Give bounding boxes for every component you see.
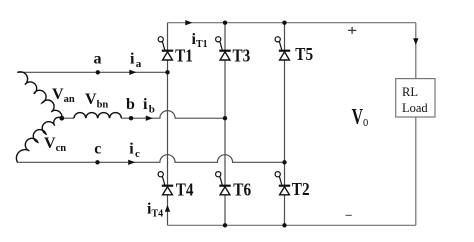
thyristor T4	[158, 172, 173, 195]
load box RL	[396, 79, 435, 117]
junction phase a / leg 1	[165, 70, 169, 74]
svg-text:T3: T3	[233, 45, 251, 65]
svg-text:Load: Load	[402, 101, 428, 115]
node b	[129, 116, 133, 120]
arrow ic	[128, 160, 135, 165]
svg-text:T6: T6	[233, 180, 251, 200]
thyristor T5	[275, 37, 290, 60]
wire phase a	[17, 71, 168, 73]
junction phase c / leg 3	[282, 160, 286, 164]
junction top rail / leg 3	[282, 21, 286, 25]
svg-text:T4: T4	[176, 180, 194, 200]
label - (negative terminal)	[346, 214, 352, 216]
wire top rail	[168, 22, 416, 24]
wire phase c (with hops over legs 1 and 2)	[17, 155, 285, 163]
arrow load current	[413, 38, 418, 45]
arrow iT1 on top rail	[185, 20, 192, 25]
svg-text:T1: T1	[175, 46, 193, 66]
arrow ia	[129, 70, 136, 75]
thyristor T3	[216, 37, 231, 60]
thyristor T2	[275, 172, 290, 195]
svg-text:b: b	[126, 96, 135, 113]
thyristor T6	[216, 172, 231, 195]
junction bottom rail / leg 2	[223, 223, 227, 227]
wire bridge leg 2 (T3/T6)	[224, 23, 226, 226]
arrow ib	[146, 116, 153, 121]
inductor winding Vcn	[16, 117, 61, 162]
wire right side (load branch)	[415, 23, 417, 226]
label + (positive terminal)	[348, 27, 356, 34]
thyristor T1	[158, 37, 173, 60]
inductor winding Vbn	[74, 113, 121, 119]
wire bridge leg 3 (T5/T2)	[284, 23, 286, 226]
node n (star point)	[59, 116, 64, 121]
wire bottom rail	[168, 224, 416, 226]
inductor winding Van	[18, 72, 62, 118]
svg-text:T2: T2	[292, 179, 310, 199]
junction phase b / leg 2	[223, 116, 227, 120]
svg-text:c: c	[94, 141, 101, 158]
junction bottom rail / leg 3	[282, 223, 286, 227]
junction top rail / leg 2	[223, 21, 227, 25]
wire phase b (with hop over leg 1)	[62, 111, 225, 119]
svg-text:a: a	[94, 51, 102, 68]
arrow iT4 on leg 1	[165, 205, 170, 212]
node a	[96, 70, 100, 74]
node c	[95, 160, 99, 164]
wire bridge leg 1 (T1/T4)	[167, 23, 169, 226]
svg-text:T5: T5	[295, 44, 313, 64]
svg-text:RL: RL	[402, 85, 418, 99]
